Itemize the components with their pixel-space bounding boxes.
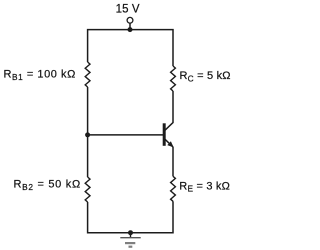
resistor RB1 [85,62,90,87]
wire left rail lower + bottom rail + right rail lower [88,201,173,232]
wire collector [165,91,173,130]
transistor Q1 base bar [163,123,166,146]
wire base [88,134,163,136]
wire terminal stub [129,24,131,30]
junction dot top node [128,27,133,32]
junction dot base node [85,132,90,137]
terminal 15V [127,17,133,23]
resistor RB2 [85,177,90,202]
wire left rail middle [87,87,89,177]
wire top rail with corners [88,30,173,66]
svg-text:RE = 3 kΩ: RE = 3 kΩ [179,180,230,193]
wire emitter [172,147,174,176]
junction dot ground node [128,230,133,235]
ground [120,233,140,247]
svg-text:RC = 5 kΩ: RC = 5 kΩ [180,70,231,83]
svg-text:15 V: 15 V [116,3,140,15]
resistor RC [171,66,176,91]
resistor RE [171,176,176,201]
transistor Q1 emitter with arrow [165,139,174,147]
